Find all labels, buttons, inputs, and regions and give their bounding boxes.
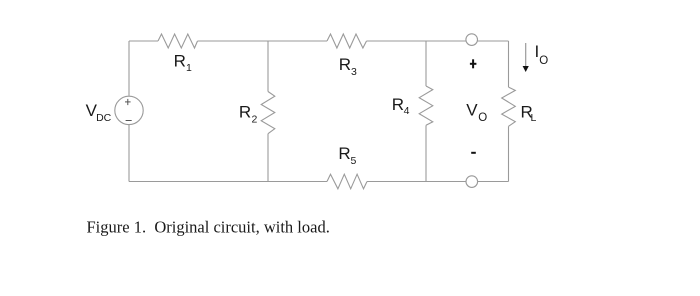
wire: R4 branch bottom: [425, 125, 427, 181]
wire: R2 branch bottom: [267, 134, 269, 182]
svg-text:1: 1: [186, 62, 192, 74]
output polarity plus: [470, 59, 477, 68]
wire: left rail top (source to top rail): [128, 41, 130, 96]
output terminal circle, top: [466, 34, 478, 46]
voltage source VDC circle: [115, 96, 143, 124]
current arrow IO: [525, 43, 527, 67]
svg-text:R: R: [338, 144, 350, 163]
resistor R5 zigzag: [327, 174, 367, 189]
wire: R2 branch top: [267, 41, 269, 92]
svg-text:DC: DC: [96, 112, 112, 124]
svg-text:R: R: [174, 51, 186, 70]
svg-text:R: R: [239, 103, 251, 122]
resistor R4 zigzag: [419, 86, 433, 125]
output terminal circle, bottom: [466, 176, 478, 188]
svg-text:2: 2: [252, 113, 258, 125]
wire: top rail, left corner to R1: [129, 40, 158, 42]
wire: R4 branch top: [425, 41, 427, 86]
svg-text:R: R: [392, 95, 404, 114]
wire: left rail bottom (source to bottom rail): [128, 124, 130, 181]
resistor R3 zigzag: [327, 34, 367, 48]
wire: bottom rail, R5 to bottom-left corner (through node at R2 branch): [129, 181, 327, 183]
wire: right rail bottom (RL to bottom-right corner): [508, 126, 510, 181]
voltage source VDC polarity minus: [126, 120, 132, 122]
svg-text:V: V: [466, 101, 478, 120]
svg-text:L: L: [531, 112, 537, 124]
wire: top rail, R1 to R3 (through node at R2 branch): [198, 40, 328, 42]
svg-text:4: 4: [404, 105, 410, 117]
wire: top rail, R3 to terminal (through node at R4 branch): [367, 40, 467, 42]
voltage source VDC polarity plus: [125, 99, 131, 105]
resistor RL zigzag: [502, 87, 516, 126]
wire: bottom rail, bottom-right corner to terminal: [478, 181, 509, 183]
resistor R1 zigzag: [158, 34, 198, 48]
resistor R2 zigzag: [261, 92, 275, 134]
wire: bottom rail, terminal to R5 (through node at R4 branch): [367, 181, 466, 183]
output polarity minus: [471, 152, 476, 154]
svg-text:Figure 1. Original circuit, w: Figure 1. Original circuit, with load.: [87, 217, 330, 236]
svg-text:O: O: [539, 55, 548, 67]
wire: top rail, terminal to top-right corner: [478, 40, 509, 42]
svg-text:5: 5: [351, 155, 357, 167]
svg-text:3: 3: [351, 66, 357, 78]
svg-text:O: O: [478, 112, 487, 124]
wire: right rail top (corner to RL): [508, 41, 510, 87]
svg-text:R: R: [339, 55, 351, 74]
